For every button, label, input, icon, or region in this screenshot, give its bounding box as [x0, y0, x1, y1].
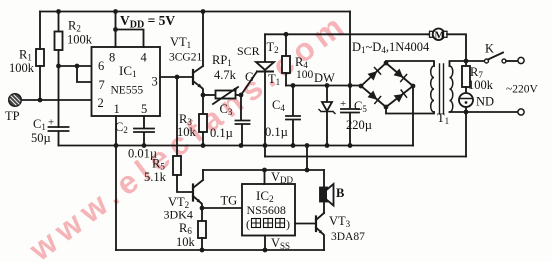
- node pin7 branch: [75, 64, 80, 69]
- node C3 ground: [239, 143, 244, 148]
- svg-text:8: 8: [109, 51, 115, 65]
- transistor VT3: [295, 213, 324, 251]
- svg-text:VT1: VT1: [170, 35, 191, 50]
- node VT1 emitter junction: [201, 93, 206, 98]
- svg-text:T2: T2: [267, 40, 279, 55]
- node R3 ground: [201, 143, 206, 148]
- wire bridge minus column: [412, 86, 414, 146]
- node VDD riser: [113, 9, 118, 14]
- svg-text:TG: TG: [221, 194, 238, 208]
- node primary-R7-K junction: [464, 59, 469, 64]
- wire primary top: [450, 61, 467, 66]
- node C2 ground: [142, 143, 147, 148]
- capacitor C4: [286, 86, 300, 146]
- node neon bottom junction: [464, 110, 469, 115]
- wire R5 column: [176, 77, 178, 155]
- svg-text:+: +: [48, 117, 54, 129]
- wire RP1 to C3 node: [236, 94, 241, 96]
- node VDD bracket corner: [113, 27, 118, 32]
- wire IC2 VDD riser: [264, 170, 266, 184]
- wire pin7: [77, 66, 92, 82]
- wire audio VDD: [203, 169, 324, 171]
- svg-text:4.7k: 4.7k: [214, 68, 237, 82]
- capacitor C2: [134, 116, 154, 146]
- svg-text:TP: TP: [5, 109, 20, 123]
- node R4 top: [284, 32, 289, 37]
- terminal TP pad: [9, 94, 22, 107]
- svg-text:3CG21: 3CG21: [169, 52, 202, 64]
- svg-text:C2: C2: [115, 120, 128, 135]
- node DW ground: [325, 143, 330, 148]
- wire bridge bottom to secondary: [386, 107, 434, 114]
- svg-text:R2: R2: [68, 19, 81, 34]
- wire top VDD rail: [40, 11, 350, 13]
- zener diode DW: [319, 86, 335, 146]
- wire neutral down to rail2: [465, 112, 467, 157]
- capacitor C3: [236, 95, 250, 146]
- svg-text:VDD: VDD: [271, 170, 294, 185]
- svg-text:100k: 100k: [67, 33, 93, 47]
- svg-text:NS5608: NS5608: [247, 203, 286, 217]
- svg-text:C1: C1: [33, 117, 46, 132]
- resistor R6: [198, 208, 206, 250]
- svg-text:C4: C4: [272, 98, 285, 113]
- wire R2 top: [58, 12, 60, 32]
- transformer T1: [431, 64, 453, 114]
- svg-text:5: 5: [141, 102, 147, 116]
- svg-text:DW: DW: [314, 71, 335, 85]
- wire emitter to RP1: [203, 94, 216, 96]
- wire bottom rail: [116, 249, 324, 251]
- wire primary bottom: [450, 111, 467, 113]
- resistor R4: [282, 34, 290, 85]
- wire pin1 ground column: [115, 116, 117, 250]
- resistor R2: [55, 32, 63, 51]
- svg-text:): ): [286, 217, 290, 231]
- bridge rectifier D1-D4: [359, 61, 416, 110]
- svg-text:10k: 10k: [176, 235, 196, 249]
- neon lamp ND: [459, 93, 473, 112]
- node DW tap: [325, 83, 330, 88]
- wire bridge top to secondary: [386, 61, 434, 66]
- svg-text:VSS: VSS: [271, 236, 290, 251]
- svg-text:50µ: 50µ: [31, 131, 51, 145]
- node pin3 junction: [175, 75, 180, 80]
- transistor VT2: [193, 170, 203, 208]
- svg-text:7: 7: [99, 78, 105, 92]
- svg-text:100k: 100k: [468, 78, 494, 92]
- capacitor C1: [49, 127, 69, 146]
- node R1-TP junction: [38, 98, 43, 103]
- wire VDD riser to pins 8 and 4: [116, 12, 144, 48]
- svg-text:M: M: [435, 30, 445, 41]
- motor M: [428, 29, 466, 62]
- terminal 220V bottom: [518, 109, 524, 115]
- svg-text:100k: 100k: [9, 61, 35, 75]
- capacitor C5: [341, 86, 359, 146]
- node IC2 VSS: [263, 248, 268, 253]
- IC IC1 NE555 timer box: [92, 47, 161, 116]
- svg-text:RP1: RP1: [212, 53, 232, 68]
- node C4 tap: [291, 83, 296, 88]
- svg-text:0.1µ: 0.1µ: [210, 126, 233, 140]
- svg-text:ND: ND: [476, 95, 494, 109]
- svg-text:3DK4: 3DK4: [164, 208, 193, 222]
- svg-text:VDD = 5V: VDD = 5V: [120, 13, 175, 31]
- resistor R1: [36, 49, 44, 66]
- svg-text:3DA87: 3DA87: [331, 231, 365, 243]
- watermark: [22, 5, 355, 262]
- node VT1 collector on rail: [201, 9, 206, 14]
- wire pin3: [160, 76, 192, 78]
- node IC2 VDD: [262, 168, 267, 173]
- wire pin6: [59, 65, 92, 67]
- wire R2 bottom to C1: [58, 50, 60, 127]
- diode D2 top-right: [394, 69, 404, 78]
- svg-text:R6: R6: [179, 221, 192, 236]
- svg-text:3: 3: [152, 75, 158, 89]
- resistor R7: [462, 61, 470, 93]
- diode D4 bottom-right: [394, 94, 404, 103]
- svg-text:5.1k: 5.1k: [144, 170, 167, 184]
- svg-text:2: 2: [98, 96, 104, 110]
- svg-text:B: B: [336, 186, 344, 200]
- svg-text:T1: T1: [437, 111, 449, 126]
- SCR thyristor: [241, 34, 274, 156]
- svg-text:+: +: [340, 98, 346, 110]
- diode D1 top-left: [368, 71, 378, 80]
- svg-text:VT3: VT3: [329, 214, 351, 229]
- diode D3 bottom-left: [368, 91, 378, 100]
- wire VDD column: [349, 12, 351, 86]
- IC2 NS5608 box: [242, 184, 295, 236]
- node C5 ground: [348, 143, 353, 148]
- svg-text:6: 6: [98, 59, 104, 73]
- wire rail2: [265, 156, 466, 158]
- wire R1 column top: [39, 12, 41, 50]
- wire 220V bottom: [466, 111, 517, 113]
- svg-text:0.1µ: 0.1µ: [265, 125, 288, 139]
- svg-text:~220V: ~220V: [506, 84, 538, 96]
- node VT2 emitter junction: [200, 206, 205, 211]
- transistor VT1: [193, 12, 203, 96]
- svg-text:D1~D4,1N4004: D1~D4,1N4004: [352, 40, 430, 55]
- resistor R5: [173, 156, 181, 175]
- node RP1-C3-gate junction: [239, 93, 244, 98]
- wire TG: [202, 207, 242, 209]
- wire rail1 to audio VDD column: [306, 146, 308, 171]
- svg-text:(: (: [246, 217, 250, 231]
- svg-text:K: K: [485, 42, 494, 56]
- wire SCR anode to motor: [265, 33, 428, 35]
- node R2 top junction: [56, 9, 61, 14]
- node C4 ground: [291, 143, 296, 148]
- node SCR cathode on rail: [263, 143, 268, 148]
- resistor R3: [199, 95, 207, 146]
- wire R5 to VT2 base: [177, 175, 192, 192]
- wire TP to pin2: [22, 99, 92, 101]
- svg-text:1: 1: [114, 102, 120, 116]
- wire IC2 VSS riser: [264, 236, 266, 251]
- svg-text:10k: 10k: [177, 125, 197, 139]
- wire R1 bottom: [39, 66, 41, 100]
- speaker B: [320, 170, 334, 213]
- potentiometer RP1: [213, 87, 238, 104]
- svg-text:SCR: SCR: [237, 44, 260, 58]
- node rail1 at 307: [305, 143, 310, 148]
- svg-text:G: G: [245, 70, 254, 84]
- node C5 tap: [348, 83, 353, 88]
- switch K: [466, 53, 517, 64]
- node pin1 on rail1: [114, 143, 119, 148]
- wire DC plus node: [286, 85, 361, 87]
- svg-text:220µ: 220µ: [346, 118, 372, 132]
- node R6 ground: [200, 248, 205, 253]
- svg-text:C5: C5: [354, 99, 367, 114]
- svg-text:4: 4: [141, 51, 148, 65]
- terminal 220V top: [518, 57, 524, 63]
- node audio VDD wire at 307: [305, 168, 310, 173]
- node pins 6-7 junction: [56, 64, 61, 69]
- svg-text:100: 100: [296, 69, 314, 81]
- svg-text:NE555: NE555: [111, 85, 144, 97]
- wire ground rail: [59, 145, 414, 147]
- label IC2 chinese: [246, 217, 290, 231]
